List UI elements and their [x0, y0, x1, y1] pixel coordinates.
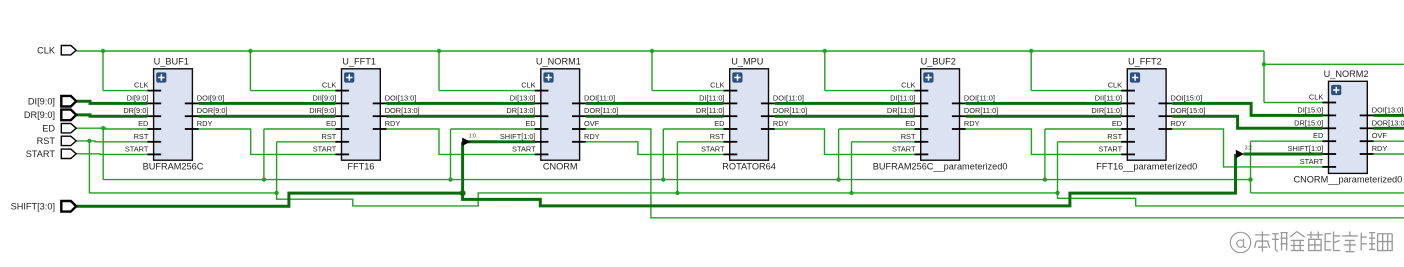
- svg-text:DII[9:0]: DII[9:0]: [312, 93, 336, 102]
- pin START (left) of U_FFT2: [1099, 144, 1135, 154]
- svg-text:RDY: RDY: [197, 119, 213, 128]
- block U_NORM2 (CNORM__parameterized0): [1329, 81, 1368, 173]
- wire RDY U_NORM2 to right edge: [1374, 153, 1404, 155]
- svg-text:RDY: RDY: [584, 132, 600, 141]
- pin RDY (right) of U_BUF1: [185, 119, 213, 129]
- pin RST (left) of U_BUF2: [901, 132, 929, 142]
- pin SHIFT[1:0] (left) of U_NORM2: [1283, 144, 1336, 154]
- wire ED riser to U_NORM1: [451, 129, 535, 180]
- wire CLK branch to U_FFT1: [250, 51, 335, 91]
- svg-text:DOI[9:0]: DOI[9:0]: [197, 93, 225, 102]
- svg-text:DOR[13:0]: DOR[13:0]: [385, 106, 420, 115]
- svg-text:ED: ED: [42, 123, 55, 133]
- svg-text:CLK: CLK: [322, 81, 336, 90]
- wire bus DOR U_NORM1 to U_MPU: [586, 115, 724, 118]
- wire CLK branch to U_FFT2: [1031, 51, 1121, 91]
- port DI[9:0]: [28, 96, 76, 107]
- junction dots ED net: [101, 126, 1253, 182]
- svg-text:ED: ED: [326, 119, 336, 128]
- pin RST (left) of U_MPU: [710, 132, 738, 142]
- module type label FFT16: [347, 162, 374, 172]
- svg-text:DIR[9:0]: DIR[9:0]: [309, 106, 336, 115]
- svg-text:ED: ED: [525, 119, 535, 128]
- expand icon of U_NORM1: [543, 72, 553, 82]
- svg-text:ED: ED: [1112, 119, 1122, 128]
- pin CLK (left) of U_BUF1: [134, 80, 161, 90]
- bus tap 3:2 at U_NORM2 SHIFT pin: [1236, 146, 1252, 159]
- svg-text:DR[11:0]: DR[11:0]: [887, 106, 916, 115]
- wire bus DOR U_NORM2 to right edge: [1374, 127, 1404, 130]
- pin START (left) of U_NORM1: [512, 144, 548, 154]
- svg-text:DR[9:0]: DR[9:0]: [24, 110, 55, 120]
- svg-text:SHIFT[1:0]: SHIFT[1:0]: [1288, 144, 1324, 153]
- pin DI[11:0] (left) of U_MPU: [692, 93, 737, 103]
- svg-text:DR[11:0]: DR[11:0]: [696, 106, 725, 115]
- wire ED riser to U_FFT1: [264, 129, 335, 180]
- wire SHIFT riser to U_NORM1 tap: [463, 142, 535, 193]
- pin CLK (left) of U_BUF2: [901, 80, 928, 90]
- module type label CNORM: [543, 162, 578, 172]
- pin RST (left) of U_FFT1: [322, 132, 350, 142]
- svg-text:BUFRAM256C: BUFRAM256C: [143, 162, 204, 172]
- pin DOR[11:0] (right) of U_MPU: [761, 106, 809, 116]
- pin DOR[11:0] (right) of U_NORM1: [572, 106, 620, 116]
- pin ED (left) of U_NORM2: [1313, 131, 1336, 141]
- wire OVF U_NORM2 to right edge: [1374, 140, 1404, 142]
- pin START (left) of U_BUF1: [125, 144, 161, 154]
- svg-text:RDY: RDY: [773, 119, 789, 128]
- svg-text:DOI[11:0]: DOI[11:0]: [964, 93, 995, 102]
- svg-text:RST: RST: [1107, 132, 1122, 141]
- svg-text:SHIFT[1:0]: SHIFT[1:0]: [500, 132, 536, 141]
- block U_FFT2 (FFT16__parameterized0): [1127, 69, 1166, 160]
- svg-text:DOR[11:0]: DOR[11:0]: [773, 106, 807, 115]
- pin DOR[15:0] (right) of U_FFT2: [1159, 106, 1207, 116]
- pin DOI[11:0] (right) of U_MPU: [761, 93, 809, 103]
- pin ED (left) of U_BUF1: [138, 119, 161, 129]
- pin SHIFT[1:0] (left) of U_NORM1: [495, 132, 548, 142]
- pin DR[15:0] (left) of U_NORM2: [1291, 118, 1336, 128]
- pin RDY (right) of U_BUF2: [952, 119, 980, 129]
- wire bus DOI U_FFT1 to U_NORM1: [387, 102, 535, 105]
- module type label BUFRAM256C__parameterized0: [873, 162, 1008, 172]
- svg-text:1:0: 1:0: [469, 133, 476, 139]
- svg-text:RDY: RDY: [385, 119, 401, 128]
- pin ED (left) of U_FFT2: [1112, 119, 1135, 129]
- svg-text:DR[9:0]: DR[9:0]: [123, 106, 148, 115]
- junction dot SHIFT net: [460, 190, 466, 196]
- pin DR[13:0] (left) of U_NORM1: [503, 106, 548, 116]
- svg-text:DOI[11:0]: DOI[11:0]: [584, 93, 615, 102]
- wire RDY U_FFT1 to START U_NORM1: [387, 129, 535, 154]
- wire ED port to U_BUF1: [76, 127, 147, 130]
- pin DOI[11:0] (right) of U_NORM1: [572, 93, 620, 103]
- svg-text:ROTATOR64: ROTATOR64: [722, 162, 776, 172]
- svg-text:FFT16: FFT16: [347, 162, 374, 172]
- pin DI[13:0] (left) of U_NORM1: [503, 93, 548, 103]
- port RST: [37, 136, 77, 146]
- instance name label U_BUF2: [921, 57, 956, 67]
- wire ED distribution trunk: [103, 128, 1250, 179]
- svg-text:DI[11:0]: DI[11:0]: [699, 93, 724, 102]
- junction dots RST net: [87, 139, 1060, 195]
- pin DOI[13:0] (right) of U_NORM2: [1360, 105, 1404, 115]
- svg-text:U_BUF1: U_BUF1: [154, 57, 189, 67]
- wire CLK branch to U_BUF2: [825, 51, 915, 91]
- wire DI[9:0] bus port to U_BUF1: [76, 101, 147, 103]
- svg-text:START: START: [1099, 144, 1123, 153]
- pin DI[15:0] (left) of U_NORM2: [1291, 105, 1336, 115]
- svg-text:CLK: CLK: [710, 81, 724, 90]
- svg-text:DR[15:0]: DR[15:0]: [1294, 118, 1323, 127]
- svg-text:DOR[13:0]: DOR[13:0]: [1372, 118, 1404, 127]
- svg-text:DOR[9:0]: DOR[9:0]: [197, 106, 228, 115]
- pin CLK (left) of U_FFT2: [1108, 80, 1135, 90]
- pin START (left) of U_NORM2: [1300, 157, 1336, 167]
- wire bus DOI U_BUF2 to U_FFT2: [966, 102, 1121, 105]
- wire CLK trunk: [76, 51, 1404, 64]
- svg-text:U_BUF2: U_BUF2: [921, 57, 956, 67]
- svg-text:U_NORM1: U_NORM1: [536, 57, 581, 67]
- svg-text:START: START: [701, 144, 725, 153]
- port CLK: [37, 45, 76, 55]
- pin DR[11:0] (left) of U_MPU: [692, 106, 737, 116]
- expand icon of U_MPU: [732, 72, 742, 82]
- port ED: [42, 123, 76, 133]
- expand icon of U_NORM2: [1331, 85, 1341, 95]
- svg-text:DIR[11:0]: DIR[11:0]: [1091, 106, 1122, 115]
- svg-text:ED: ED: [1313, 131, 1323, 140]
- pin START (left) of U_FFT1: [313, 144, 349, 154]
- svg-text:CLK: CLK: [37, 45, 56, 55]
- pin DR[9:0] (left) of U_BUF1: [120, 106, 161, 116]
- pin CLK (left) of U_MPU: [710, 80, 737, 90]
- expand icon of U_FFT1: [344, 72, 354, 82]
- svg-text:U_FFT1: U_FFT1: [342, 57, 376, 67]
- wire bus DOR U_FFT2 to U_NORM2: [1172, 116, 1322, 128]
- instance name label U_MPU: [731, 57, 763, 67]
- svg-text:DII[11:0]: DII[11:0]: [1095, 93, 1122, 102]
- pin ED (left) of U_FFT1: [326, 119, 349, 129]
- pin ED (left) of U_NORM1: [525, 119, 548, 129]
- svg-text:CLK: CLK: [1108, 81, 1122, 90]
- pin START (left) of U_BUF2: [892, 144, 928, 154]
- svg-text:ED: ED: [138, 119, 148, 128]
- pin DOI[11:0] (right) of U_BUF2: [952, 93, 1000, 103]
- svg-text:U_MPU: U_MPU: [731, 57, 763, 67]
- svg-text:RDY: RDY: [964, 119, 980, 128]
- wire RST riser to U_FFT2: [1058, 142, 1122, 193]
- svg-text:DI[11:0]: DI[11:0]: [890, 93, 915, 102]
- svg-text:DOI[15:0]: DOI[15:0]: [1171, 93, 1203, 102]
- pin ED (left) of U_BUF2: [905, 119, 928, 129]
- svg-text:OVF: OVF: [1372, 131, 1388, 140]
- svg-text:DI[15:0]: DI[15:0]: [1297, 105, 1323, 114]
- wire START port to U_BUF1: [76, 153, 147, 156]
- bus tap 1:0 at U_NORM1 SHIFT pin: [462, 133, 476, 146]
- port START: [26, 149, 76, 159]
- svg-text:DOI[13:0]: DOI[13:0]: [1372, 105, 1404, 114]
- pin DOR[13:0] (right) of U_NORM2: [1360, 118, 1404, 128]
- svg-text:BUFRAM256C__parameterized0: BUFRAM256C__parameterized0: [873, 162, 1008, 172]
- pin RDY (right) of U_NORM2: [1360, 144, 1388, 154]
- svg-text:RST: RST: [322, 132, 337, 141]
- svg-text:RST: RST: [710, 132, 725, 141]
- wire ED riser to U_FFT2: [1045, 129, 1121, 180]
- wire RDY U_BUF1 to START U_FFT1: [199, 129, 336, 154]
- wire RDY U_BUF2 to START U_FFT2: [966, 129, 1121, 154]
- svg-text:RST: RST: [134, 132, 149, 141]
- wire bus DOI U_NORM1 to U_MPU: [586, 102, 724, 105]
- wire CLK branch to U_NORM1: [439, 51, 535, 91]
- svg-text:3:2: 3:2: [1245, 146, 1252, 152]
- svg-text:RDY: RDY: [1171, 119, 1187, 128]
- svg-text:ED: ED: [714, 119, 724, 128]
- wire OVF U_NORM1 to right edge: [586, 129, 1404, 218]
- wire SHIFT[3:0] bus trunk: [76, 154, 1235, 206]
- svg-text:DOR[15:0]: DOR[15:0]: [1171, 106, 1206, 115]
- svg-text:RST: RST: [37, 136, 56, 146]
- block U_BUF1 (BUFRAM256C): [154, 69, 193, 160]
- pin DR[11:0] (left) of U_BUF2: [883, 106, 928, 116]
- svg-text:DR[13:0]: DR[13:0]: [506, 106, 535, 115]
- pin RDY (right) of U_NORM1: [572, 132, 600, 142]
- svg-text:SHIFT[3:0]: SHIFT[3:0]: [11, 201, 55, 211]
- wire RDY U_NORM1 to START U_MPU: [586, 142, 724, 155]
- pin DOR[13:0] (right) of U_FFT1: [373, 106, 421, 116]
- svg-text:RST: RST: [901, 132, 916, 141]
- pin DII[11:0] (left) of U_FFT2: [1086, 93, 1135, 103]
- svg-text:DOR[11:0]: DOR[11:0]: [584, 106, 618, 115]
- pin DII[9:0] (left) of U_FFT1: [304, 93, 349, 103]
- wire SHIFT[1:0] tap to U_NORM2: [1244, 153, 1323, 156]
- pin OVF (right) of U_NORM2: [1360, 131, 1388, 141]
- pin RST (left) of U_FFT2: [1107, 132, 1135, 142]
- wire bus DOI U_NORM2 to right edge: [1374, 114, 1404, 117]
- wire ED riser to U_MPU: [663, 129, 723, 180]
- junction dots CLK net: [101, 49, 1266, 67]
- block U_FFT1 (FFT16): [342, 69, 381, 160]
- wire RST port to U_BUF1: [76, 140, 147, 143]
- svg-text:START: START: [313, 144, 337, 153]
- expand icon of U_FFT2: [1130, 72, 1140, 82]
- module type label BUFRAM256C: [143, 162, 204, 172]
- instance name label U_NORM2: [1324, 69, 1369, 79]
- svg-text:U_NORM2: U_NORM2: [1324, 69, 1369, 79]
- svg-text:CNORM__parameterized0: CNORM__parameterized0: [1294, 175, 1403, 185]
- pin CLK (left) of U_NORM1: [521, 80, 548, 90]
- wire bus DOI U_MPU to U_BUF2: [775, 102, 915, 105]
- wire bus DOI U_BUF1 to U_FFT1: [199, 102, 336, 105]
- pin DOI[15:0] (right) of U_FFT2: [1159, 93, 1207, 103]
- svg-text:DI[13:0]: DI[13:0]: [510, 93, 536, 102]
- svg-text:DI[9:0]: DI[9:0]: [127, 93, 149, 102]
- svg-text:CNORM: CNORM: [543, 162, 578, 172]
- wire CLK branch to U_BUF1: [103, 51, 147, 91]
- wire DR[9:0] bus port to U_BUF1: [76, 115, 147, 116]
- watermark: [1230, 232, 1392, 253]
- svg-text:OVF: OVF: [584, 119, 600, 128]
- svg-text:FFT16__parameterized0: FFT16__parameterized0: [1096, 162, 1197, 172]
- wire RDY U_MPU to START U_BUF2: [775, 129, 915, 154]
- pin DI[11:0] (left) of U_BUF2: [883, 93, 928, 103]
- pin CLK (left) of U_FFT1: [322, 80, 349, 90]
- svg-text:CLK: CLK: [1309, 93, 1323, 102]
- port SHIFT[3:0]: [11, 201, 77, 212]
- module type label FFT16__parameterized0: [1096, 162, 1197, 172]
- wire bus DOR U_BUF2 to U_FFT2: [966, 115, 1121, 118]
- block U_MPU (ROTATOR64): [730, 69, 769, 160]
- svg-text:RDY: RDY: [1372, 144, 1388, 153]
- block U_BUF2 (BUFRAM256C__parameterized0): [921, 69, 960, 160]
- pin DIR[9:0] (left) of U_FFT1: [304, 106, 349, 116]
- wire bus DOI U_FFT2 to U_NORM2: [1172, 103, 1322, 115]
- svg-text:START: START: [892, 144, 916, 153]
- block U_NORM1 (CNORM): [541, 69, 580, 160]
- pin OVF (right) of U_NORM1: [572, 119, 600, 129]
- svg-text:START: START: [26, 149, 56, 159]
- wire RST riser to U_BUF2: [852, 142, 915, 193]
- pin DIR[11:0] (left) of U_FFT2: [1086, 106, 1135, 116]
- svg-text:CLK: CLK: [521, 81, 535, 90]
- expand icon of U_BUF2: [923, 72, 933, 82]
- pin DOI[9:0] (right) of U_BUF1: [185, 93, 229, 103]
- svg-text:CLK: CLK: [901, 81, 915, 90]
- pin RDY (right) of U_FFT1: [373, 119, 401, 129]
- svg-text:DI[9:0]: DI[9:0]: [28, 96, 55, 106]
- pin RDY (right) of U_FFT2: [1159, 119, 1187, 129]
- pin DOR[9:0] (right) of U_BUF1: [185, 106, 229, 116]
- instance name label U_BUF1: [154, 57, 189, 67]
- pin CLK (left) of U_NORM2: [1309, 92, 1336, 102]
- pin START (left) of U_MPU: [701, 144, 737, 154]
- pin ED (left) of U_MPU: [714, 119, 737, 129]
- svg-text:START: START: [125, 144, 149, 153]
- wire bus DOR U_BUF1 to U_FFT1: [199, 115, 336, 118]
- svg-text:ED: ED: [905, 119, 915, 128]
- module type label ROTATOR64: [722, 162, 776, 172]
- wire CLK branch to U_NORM2: [1264, 64, 1322, 102]
- wire CLK branch to U_MPU: [652, 51, 724, 91]
- wire RST riser to U_FFT1: [277, 142, 336, 193]
- svg-text:DOI[13:0]: DOI[13:0]: [385, 93, 417, 102]
- wire ED riser to U_NORM2 and exit: [1251, 141, 1404, 193]
- instance name label U_FFT1: [342, 57, 376, 67]
- svg-text:CLK: CLK: [134, 81, 148, 90]
- pin RDY (right) of U_MPU: [761, 119, 789, 129]
- wire RDY U_FFT2 to START U_NORM2: [1172, 129, 1322, 167]
- instance name label U_FFT2: [1128, 57, 1162, 67]
- expand icon of U_BUF1: [156, 72, 166, 82]
- wire bus DOR U_MPU to U_BUF2: [775, 115, 915, 118]
- port DR[9:0]: [24, 110, 76, 121]
- pin RST (left) of U_BUF1: [134, 132, 162, 142]
- pin DOI[13:0] (right) of U_FFT1: [373, 93, 421, 103]
- svg-text:U_FFT2: U_FFT2: [1128, 57, 1162, 67]
- module type label CNORM__parameterized0: [1294, 175, 1403, 185]
- pin DOR[11:0] (right) of U_BUF2: [952, 106, 1000, 116]
- wire RST distribution trunk: [89, 141, 1404, 206]
- wire bus DOR U_FFT1 to U_NORM1: [387, 115, 535, 118]
- pin DI[9:0] (left) of U_BUF1: [120, 93, 161, 103]
- instance name label U_NORM1: [536, 57, 581, 67]
- svg-text:START: START: [512, 144, 536, 153]
- svg-text:START: START: [1300, 157, 1324, 166]
- wire ED riser to U_BUF2: [839, 129, 915, 180]
- wire RST riser to U_MPU: [677, 142, 723, 193]
- svg-text:DOI[11:0]: DOI[11:0]: [773, 93, 804, 102]
- svg-text:DOR[11:0]: DOR[11:0]: [964, 106, 998, 115]
